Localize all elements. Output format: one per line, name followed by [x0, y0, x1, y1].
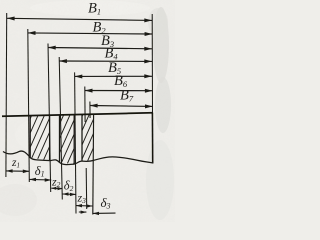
wavy break line: [3, 151, 153, 165]
part top edge: [2, 113, 153, 116]
dimension B6 line: [85, 90, 153, 92]
part right step edge: [151, 113, 153, 164]
hatched block 2: [57, 113, 77, 166]
extension line B4: [59, 57, 62, 200]
dimension B5 line: [75, 75, 152, 77]
dimension B4 line: [59, 60, 152, 62]
dimension B7 line: [90, 105, 153, 108]
hatched block 3: [80, 112, 96, 164]
extension line B2: [28, 29, 30, 182]
extension line B1 (left): [5, 13, 8, 177]
dimension B1 line: [7, 18, 152, 20]
dimension delta3 (narrow, outside arrows): [79, 211, 87, 213]
dimension B3 line: [48, 48, 152, 49]
extension line B6: [84, 87, 86, 123]
hatched block 1: [28, 113, 52, 163]
extension line B3: [48, 44, 51, 193]
dimension delta2 line: [63, 193, 76, 195]
extension line A (below part, left of delta3): [85, 168, 88, 209]
paper background: [0, 0, 175, 222]
dimension z1 line: [6, 170, 29, 172]
extension line right (common): [151, 14, 153, 114]
extension line B5: [75, 72, 76, 213]
dimension B2 line: [28, 33, 153, 34]
extension line B7: [89, 102, 91, 119]
dimension z3 line: [76, 205, 92, 207]
dimension z2 line: [51, 187, 62, 189]
label B1: [11, 1, 134, 211]
dimension delta1 line: [29, 178, 51, 181]
